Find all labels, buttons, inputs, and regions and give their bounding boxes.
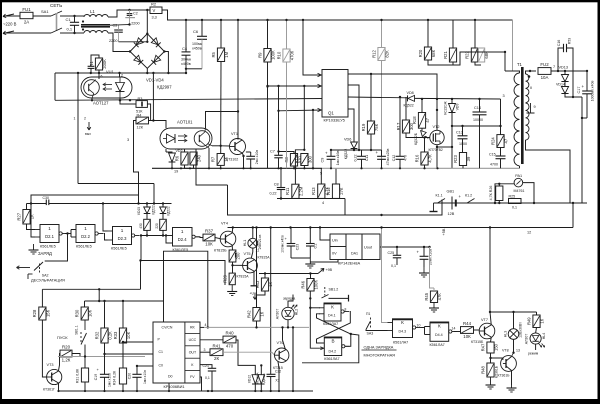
svg-text:R48: R48 (480, 365, 485, 373)
resistor R19b (229, 250, 236, 262)
svg-text:470: 470 (226, 344, 234, 349)
wire y197 drop (344, 199, 346, 216)
svg-text:R16: R16 (414, 154, 419, 162)
wire C5 top link (246, 151, 251, 153)
capacitor C2 (127, 13, 133, 15)
svg-text:SА3: SА3 (367, 332, 374, 336)
wire R5 top (220, 20, 222, 48)
svg-text:R33: R33 (113, 331, 118, 339)
resistor R36 (160, 219, 167, 230)
wire 555 top feed (164, 251, 208, 327)
wire VD14b bottom (260, 384, 262, 391)
svg-text:VT3: VT3 (47, 363, 54, 367)
svg-text:VТ8: VТ8 (502, 349, 509, 353)
wire VD2 bottom (171, 162, 173, 168)
resistor R31 (81, 368, 88, 382)
DA2 pin dots (122, 341, 124, 343)
R3 inner bar (141, 102, 143, 107)
transistor VT8 (501, 356, 517, 372)
wire R22 top (474, 20, 476, 48)
capacitor C15 (496, 155, 506, 157)
svg-text:В: В (331, 338, 334, 343)
wire R19 bottom (370, 134, 372, 150)
wire R1 bottom (98, 70, 100, 79)
DA2 pin C0 dot (136, 365, 138, 367)
diode VD14 (561, 87, 568, 94)
capacitor C6 (197, 35, 207, 37)
gate DD4.4 (430, 322, 449, 341)
wire R9 top (267, 20, 269, 49)
wire x573 drop (572, 203, 574, 228)
wire mains lower (3, 32, 51, 34)
y150 dots (370, 149, 372, 151)
svg-text:D2.1: D2.1 (45, 234, 55, 239)
VT2 drain dots (436, 98, 438, 100)
wire Q1 pin1 wire (303, 20, 322, 75)
svg-text:9: 9 (534, 105, 536, 109)
wire x293 drop (292, 327, 294, 391)
fuse FU2 (538, 68, 551, 75)
wire VU1 led cathode (119, 98, 121, 100)
VU2 led (167, 134, 176, 143)
SA2 right dot (66, 232, 68, 234)
wire x505 feed (453, 52, 505, 65)
diode VD14b (258, 375, 265, 384)
wire C25 gnd (396, 262, 398, 265)
svg-text:150: 150 (494, 343, 499, 351)
svg-text:С12: С12 (392, 155, 396, 162)
wire x78 drop (77, 73, 79, 184)
transistor VT5 (243, 258, 258, 273)
svg-text:47К: 47К (437, 293, 442, 301)
wire x490 drop (489, 228, 491, 313)
svg-text:0,2К: 0,2К (108, 331, 113, 340)
wire R6 ties (184, 149, 186, 152)
svg-text:R42: R42 (246, 310, 251, 318)
wire R47-R48 link (490, 353, 492, 363)
svg-text:D0: D0 (168, 375, 173, 379)
wire R31 top (84, 357, 86, 369)
transistor VT7 (479, 323, 495, 339)
wire VD15 top stub (146, 204, 148, 208)
R8 top dot (277, 150, 279, 152)
svg-text:R10: R10 (276, 51, 281, 59)
HL2 bot dot (287, 326, 289, 328)
wire DD2.2 out (104, 234, 108, 241)
svg-text:R40: R40 (225, 331, 234, 336)
input terminal arrow upper (3, 14, 14, 17)
svg-text:Uout: Uout (364, 246, 373, 250)
svg-text:С4: С4 (182, 46, 188, 51)
capacitor C20 (132, 373, 141, 375)
y273.5 dots (264, 272, 266, 274)
svg-text:К561ЛЕ5: К561ЛЕ5 (76, 245, 92, 249)
wire VT8 base wire (491, 358, 503, 360)
svg-text:47мк х25в: 47мк х25в (386, 149, 390, 166)
wire x505 down (504, 52, 506, 71)
wire C3 to bridge feed (119, 41, 148, 43)
wire x381 gray lower (382, 228, 388, 323)
capacitor C5 (246, 155, 255, 157)
svg-text:7: 7 (553, 65, 555, 69)
wire x31 net (31, 195, 139, 204)
y298 dots (309, 297, 311, 299)
svg-text:ДЕСУЛЬФАТАЦИЯ: ДЕСУЛЬФАТАЦИЯ (31, 278, 65, 283)
wire R32 top (104, 301, 106, 328)
wire R19 top (370, 74, 372, 121)
svg-text:220: 220 (155, 223, 159, 229)
svg-text:R44: R44 (463, 321, 472, 326)
svg-text:DA1: DA1 (351, 252, 358, 256)
svg-text:КТ361Г: КТ361Г (43, 388, 55, 392)
secondary top dot (529, 70, 531, 72)
wire x270 drop b (270, 377, 272, 392)
terminal bar VT5 (251, 285, 258, 287)
svg-text:R43: R43 (255, 280, 260, 288)
svg-text:К1.1: К1.1 (436, 194, 443, 198)
Q1 pin2 dot (266, 85, 268, 87)
wire output minus drop (581, 97, 583, 203)
VU1 phototransistor (84, 80, 100, 96)
svg-text:R27: R27 (16, 212, 21, 220)
svg-text:D2.3: D2.3 (118, 236, 128, 241)
svg-text:R17: R17 (396, 122, 401, 130)
svg-text:FU2: FU2 (540, 62, 549, 67)
svg-text:R25: R25 (509, 194, 516, 198)
wire VT3 emitter (58, 383, 60, 391)
DA1 out dots (396, 246, 398, 248)
svg-text:3: 3 (204, 348, 206, 352)
R16 gate dot (423, 136, 425, 138)
svg-text:SВ1.1: SВ1.1 (75, 325, 79, 335)
svg-text:100К: 100К (271, 50, 276, 60)
wire R28 bottom to VT3 base (42, 320, 46, 377)
switch SA1 link (56, 13, 58, 31)
svg-text:D4.4: D4.4 (435, 333, 443, 337)
resistor R48 (487, 363, 494, 377)
resistor R47 (487, 342, 494, 353)
resistor R31h (60, 350, 72, 357)
svg-text:0V: 0V (332, 252, 337, 256)
VD13 top dot (557, 70, 559, 72)
wire y183.5 link (78, 183, 154, 185)
svg-text:27К: 27К (339, 187, 344, 195)
wire DA2 left pin C1 (105, 353, 154, 355)
svg-text:10К: 10К (205, 242, 213, 247)
svg-text:II: II (530, 86, 532, 90)
wire PA1 right (523, 183, 534, 203)
svg-text:R7: R7 (211, 156, 216, 162)
svg-text:300: 300 (409, 122, 414, 130)
transistor VT6 (275, 348, 289, 362)
R42 bot dot (255, 326, 257, 328)
svg-text:VD8: VD8 (407, 91, 414, 95)
wire to primary top (505, 70, 513, 72)
desulf terminal arrow (17, 267, 31, 269)
DD4.2 out dot (350, 333, 352, 335)
wire Q1 pin5 wire (348, 109, 354, 142)
svg-text:+9В: +9В (326, 268, 333, 272)
wire VT1 emitter drop (242, 153, 243, 169)
C7 top dot (277, 85, 279, 87)
svg-text:К1.2: К1.2 (465, 194, 472, 198)
svg-text:0,1: 0,1 (391, 264, 396, 268)
wire x452 drop (451, 113, 453, 169)
wire Q1 pin7 wire (348, 85, 359, 150)
wire VT1 base wire (221, 145, 230, 147)
wire R17 gate wire (406, 133, 430, 138)
svg-text:12К: 12К (137, 125, 144, 129)
R19b node dot (231, 264, 233, 266)
svg-text:1мк х10в: 1мк х10в (143, 370, 147, 384)
wire x310 DD41 branch (310, 307, 320, 309)
resistor R32 (101, 328, 108, 343)
capacitor C10 (357, 155, 366, 157)
wire DD2.1 pin2 feed (31, 204, 35, 238)
C6 bus dot (201, 19, 203, 21)
resistor R14 (332, 184, 339, 198)
svg-text:С20: С20 (128, 373, 132, 379)
wire R19b bottom (232, 262, 234, 273)
capacitor C21 (208, 367, 216, 369)
bridge side dots (129, 50, 131, 52)
resistor R26 (496, 186, 503, 201)
rail y100 dots (91, 99, 93, 101)
wire VU1 led anode (119, 73, 121, 77)
svg-text:R3: R3 (138, 97, 143, 101)
svg-text:1000мк х40в: 1000мк х40в (591, 81, 595, 102)
Q1 pin1 arrow (318, 73, 322, 76)
resistor R11 (292, 184, 299, 198)
R10 dots (285, 19, 287, 21)
svg-text:1К: 1К (260, 311, 265, 316)
wire DA2 FV pin (200, 377, 202, 391)
svg-text:4: 4 (322, 201, 324, 205)
svg-text:D2.2: D2.2 (81, 234, 91, 239)
resistor R23 (459, 153, 466, 166)
ground R48 (490, 377, 492, 385)
svg-text:1М: 1М (224, 51, 229, 57)
svg-text:С11: С11 (365, 155, 369, 161)
wire Q1 pin8 wire y74 (348, 74, 437, 99)
R20 dot (427, 19, 429, 21)
wire R12 top (381, 20, 383, 48)
resistor R18 (418, 113, 425, 129)
wire x433 gray drop (430, 247, 435, 288)
svg-text:10А: 10А (541, 75, 549, 80)
resistor R12 (378, 48, 385, 61)
svg-text:С30: С30 (43, 196, 49, 200)
resistor R42 (253, 308, 260, 322)
R3 left dot (119, 99, 121, 101)
varistor R2 (150, 7, 162, 14)
wire rail y73 (55, 72, 186, 74)
resistor R34 (119, 368, 126, 384)
svg-text:R28: R28 (32, 309, 37, 317)
capacitor C7 (274, 154, 282, 156)
wire C9 top link (331, 149, 359, 151)
wire VU2 led cathode drop (165, 149, 167, 152)
svg-text:ЗАРЯД: ЗАРЯД (38, 251, 52, 256)
junction dot C2 top (128, 9, 130, 11)
svg-text:VT2: VT2 (433, 125, 440, 129)
shunt R25 (509, 199, 522, 204)
svg-text:К561ЛА7: К561ЛА7 (393, 341, 408, 345)
wire R27 top (26, 204, 28, 210)
wire x103 drop (103, 204, 108, 232)
gate DD4.1 (324, 303, 341, 321)
wire R45 top (433, 288, 435, 291)
VU1 arrows (103, 84, 112, 86)
svg-text:R49: R49 (526, 317, 531, 325)
wire bridge top feed (146, 10, 148, 42)
svg-text:R9: R9 (257, 52, 262, 58)
svg-text:VD15: VD15 (137, 207, 141, 215)
Q1 pin1 dot (302, 19, 304, 21)
wire VD12 bottom (254, 384, 256, 391)
svg-text:14: 14 (452, 327, 456, 331)
y312 dots (489, 311, 491, 313)
ground R45 (433, 303, 435, 309)
svg-text:R23: R23 (453, 154, 458, 162)
svg-text:3: 3 (127, 138, 129, 142)
wire VU2 emitter to relay box (196, 149, 228, 185)
svg-text:SA1: SA1 (41, 9, 49, 14)
capacitor C8 (277, 187, 285, 189)
wire x452 drop upper (451, 99, 453, 104)
wire DD4.4 fan (424, 327, 426, 335)
transistor VT4 (220, 231, 236, 247)
svg-text:КТ361Б: КТ361Б (498, 374, 511, 378)
y203 dots (494, 202, 496, 204)
wire y197 wire (277, 198, 345, 200)
T1 secondary upper (526, 74, 529, 103)
wire VT8 collector down (511, 371, 513, 386)
svg-text:D2.4: D2.4 (178, 237, 188, 242)
svg-text:С23: С23 (296, 244, 300, 250)
svg-text:1К: 1К (268, 282, 273, 287)
svg-text:300мк: 300мк (181, 58, 191, 62)
svg-text:19: 19 (174, 170, 178, 174)
svg-text:С16: С16 (557, 40, 561, 47)
DD4.3 top bar (393, 318, 413, 320)
wire SA2 right (45, 234, 68, 262)
svg-text:R31 6,8К: R31 6,8К (75, 368, 79, 383)
wire VT7 collector link (490, 312, 491, 325)
svg-text:+U: +U (250, 292, 255, 296)
x582 dot (581, 117, 583, 119)
LED HL4 (530, 333, 541, 344)
ammeter PA1 (514, 178, 523, 187)
wire C17 bottom join (582, 117, 587, 119)
resistor R6 (181, 152, 188, 165)
wire common rail y168.3 left (152, 167, 322, 169)
wire VU1 emitter out (91, 98, 93, 100)
wire C1 to L1 upper (75, 15, 85, 17)
resistor R1 (95, 58, 102, 70)
svg-text:VD12: VD12 (248, 375, 252, 383)
svg-text:D4.3: D4.3 (399, 329, 407, 333)
svg-text:К561ЛА7: К561ЛА7 (324, 357, 339, 361)
resistor R40 (223, 336, 236, 343)
wire DA2 left pin R (123, 341, 153, 343)
svg-text:VD6: VD6 (344, 138, 351, 142)
resistor R28 (39, 307, 46, 320)
wire R6 bottoms (185, 165, 194, 168)
R15 top dot (303, 85, 305, 87)
svg-text:КТ315Б: КТ315Б (471, 340, 484, 344)
svg-text:Х1: Х1 (275, 378, 279, 382)
wire R32 bottom (104, 343, 106, 374)
svg-text:10К: 10К (88, 309, 93, 317)
SA2 net dot (139, 259, 141, 261)
pin8 dots (370, 73, 372, 75)
svg-text:510: 510 (297, 156, 302, 164)
wire R31 bottom (84, 382, 86, 391)
svg-text:К561ЛЕ5: К561ЛЕ5 (111, 247, 127, 251)
svg-text:Т1: Т1 (517, 62, 523, 67)
svg-text:2мк х10в: 2мк х10в (255, 150, 259, 164)
svg-text:1: 1 (121, 228, 124, 233)
diode VD6 (351, 142, 358, 149)
svg-text:Д310Б: Д310Б (262, 373, 266, 382)
wire secondary bottom out (526, 140, 571, 203)
VU2 coll dot (237, 110, 239, 112)
capacitor C22 in x270 drop (267, 373, 276, 375)
svg-text:2: 2 (121, 74, 123, 78)
wire DA2 UCC wire (200, 339, 223, 341)
svg-text:R18: R18 (412, 116, 417, 124)
svg-text:С2: С2 (133, 12, 138, 16)
wire VD2 top (166, 152, 172, 153)
svg-text:R30: R30 (75, 309, 80, 317)
svg-text:~220 В: ~220 В (3, 22, 17, 27)
wire VD14 out (565, 94, 582, 98)
svg-text:КТ815А: КТ815А (258, 255, 271, 259)
relay contact K1.2 (467, 199, 475, 204)
svg-text:470: 470 (404, 155, 408, 161)
svg-text:0,1: 0,1 (67, 27, 73, 32)
wire y203.5 wire right (49, 203, 172, 205)
svg-text:R41: R41 (212, 343, 221, 348)
wire DA1 gnd stub (310, 260, 338, 263)
wire switch to C1 upper (60, 15, 75, 17)
resistor R21 (449, 48, 456, 62)
svg-text:ПУСК: ПУСК (57, 335, 68, 340)
wire bus y301 (85, 300, 164, 302)
resistor R49 (533, 315, 540, 328)
wire PA1 feed (495, 184, 514, 203)
resistor R33 (119, 328, 126, 343)
svg-text:2: 2 (84, 117, 86, 121)
pin6 dots (399, 96, 401, 98)
C8 dots (280, 167, 282, 169)
VT6 coll dot (281, 326, 283, 328)
wire secondary top out (526, 71, 537, 74)
svg-text:С8: С8 (274, 183, 279, 187)
svg-text:К561ЛЕ5: К561ЛЕ5 (40, 245, 56, 249)
R9 dots (266, 19, 268, 21)
DD4.1 top bar (324, 303, 341, 305)
svg-text:R21: R21 (443, 50, 448, 58)
svg-text:6: 6 (101, 75, 103, 79)
wire C6 bottom link (186, 68, 202, 70)
wire DD2.2 pin fans (71, 229, 76, 231)
wire common rail y168.3 right (322, 167, 520, 169)
svg-text:0,1: 0,1 (314, 244, 318, 249)
svg-text:4: 4 (205, 323, 207, 327)
inductor L1 winding 2 (84, 31, 108, 34)
